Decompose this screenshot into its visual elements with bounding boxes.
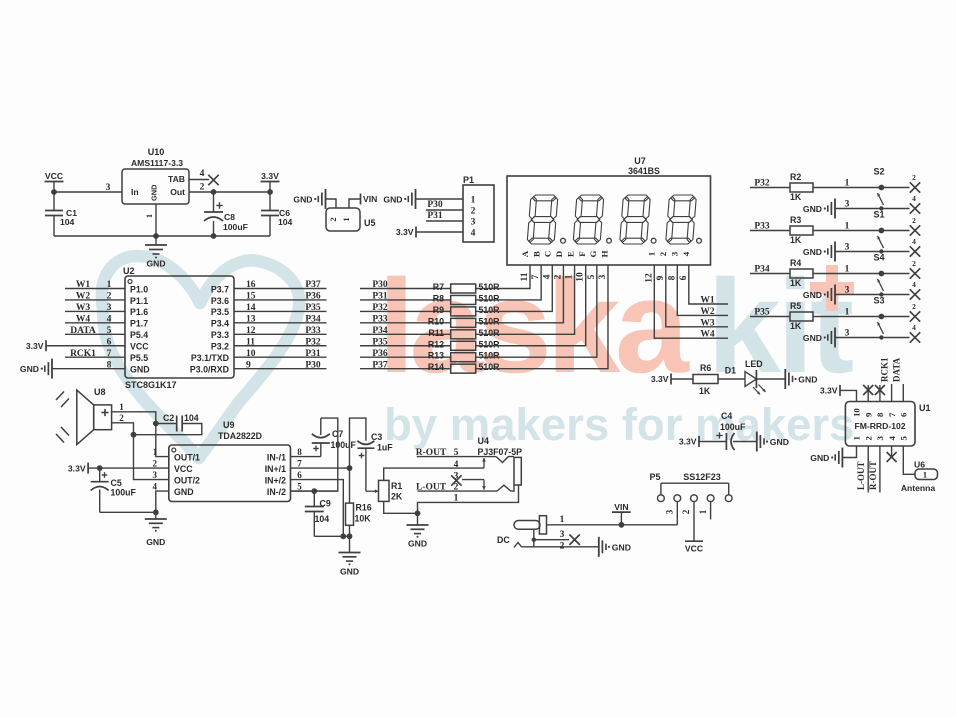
svg-text:2: 2	[328, 217, 338, 221]
svg-text:1: 1	[845, 179, 850, 189]
svg-text:13: 13	[246, 315, 256, 325]
wire U9 pin 8 to C7	[291, 456, 321, 458]
svg-text:GND: GND	[798, 375, 817, 385]
svg-text:W2: W2	[700, 307, 715, 317]
wire U7 pin 1 segment E to R11	[476, 265, 575, 334]
svg-text:3: 3	[845, 243, 850, 253]
svg-text:4: 4	[471, 229, 476, 239]
svg-text:2: 2	[912, 216, 916, 225]
resistor R4 1K	[790, 258, 813, 288]
wire U1 pin 5 to antenna U6	[903, 446, 915, 474]
svg-text:S2: S2	[873, 167, 884, 177]
wire ground rail U10	[54, 235, 270, 237]
wire R16 bottom ground junction	[314, 525, 352, 539]
pin 2 label U10	[200, 183, 205, 193]
wire GND to P1 pin 1	[416, 198, 464, 200]
svg-text:U5: U5	[364, 218, 376, 228]
7-segment digit 3 of U7	[625, 195, 649, 201]
svg-text:16: 16	[246, 280, 256, 290]
svg-text:P3.1/TXD: P3.1/TXD	[191, 353, 229, 363]
svg-text:4: 4	[200, 169, 205, 179]
net label R-OUT wire U1 pin 3	[868, 446, 880, 493]
svg-text:P36: P36	[305, 292, 321, 302]
svg-text:C9: C9	[320, 499, 331, 509]
ground flag at S4	[803, 285, 835, 305]
svg-text:OUT/2: OUT/2	[174, 475, 200, 485]
svg-text:W3: W3	[76, 303, 91, 313]
svg-text:U8: U8	[94, 387, 106, 397]
net label P33 wire to R10	[360, 315, 451, 325]
wire C5 to ground junction	[100, 509, 159, 515]
ground flag at S3	[803, 328, 835, 348]
switch S3	[873, 296, 920, 343]
svg-text:1: 1	[144, 214, 154, 218]
wire R5 to switch S3 pin 1	[813, 308, 910, 320]
svg-text:6: 6	[107, 337, 112, 347]
power flag VIN at DC	[612, 502, 631, 525]
wire R6 to D1	[718, 366, 745, 380]
wire U7 pin 11 segment A to R7	[476, 265, 530, 289]
wire C4 to GND	[733, 441, 757, 443]
watermark tagline by makers for makers	[384, 399, 854, 450]
wire U7 pin 3 segment H to R14	[476, 265, 608, 369]
ground flag at D1	[785, 369, 817, 389]
svg-text:R12: R12	[428, 339, 444, 349]
resistor R10 510R	[428, 316, 500, 327]
wire C3 to R1 wiper	[366, 448, 379, 493]
svg-text:1: 1	[845, 222, 850, 232]
wire C3 branch rail	[350, 418, 366, 468]
svg-text:510R: 510R	[479, 282, 501, 292]
wire R3 to switch S1 pin 1	[813, 222, 910, 234]
svg-text:100uF: 100uF	[331, 440, 357, 450]
svg-text:2: 2	[200, 183, 205, 193]
svg-text:3.3V: 3.3V	[820, 386, 838, 396]
wire GND to S4 pin 3	[835, 286, 910, 296]
svg-text:3.3V: 3.3V	[26, 341, 44, 351]
svg-text:3: 3	[107, 303, 112, 313]
speaker U8	[56, 387, 112, 445]
capacitor C7 100uF	[312, 418, 357, 457]
svg-text:3.3V: 3.3V	[651, 374, 669, 384]
resistor R14 510R	[428, 362, 500, 373]
svg-text:3: 3	[106, 183, 111, 193]
svg-text:1: 1	[845, 308, 850, 318]
net label W4 wire to U2 pin 4	[65, 315, 125, 325]
switch S4	[873, 253, 920, 300]
ground flag at U2 GND pin 8	[20, 359, 125, 379]
svg-text:3: 3	[153, 470, 158, 480]
ground flag at U1	[810, 448, 842, 468]
svg-text:C5: C5	[111, 478, 122, 488]
resistor R11 510R	[428, 328, 500, 339]
svg-text:104: 104	[184, 413, 199, 423]
wire U7 pin 5 segment G to R13	[476, 265, 597, 357]
wire C7 over to U9 pin 5	[291, 418, 338, 491]
net label P33 wire to R3	[750, 222, 790, 232]
headphone jack U4 PJ3F07-5P	[478, 436, 523, 485]
FM module U1 FM-RRD-102	[845, 402, 930, 447]
wire U4 pin 4 switch contact	[454, 458, 486, 470]
svg-text:2: 2	[912, 302, 916, 311]
wire D1 to GND	[756, 378, 785, 380]
svg-text:P31: P31	[305, 349, 321, 359]
wire U7 pin 6 to net W1	[679, 265, 728, 304]
svg-text:P3.7: P3.7	[211, 284, 229, 294]
svg-text:H: H	[599, 250, 609, 257]
svg-text:PJ3F07-5P: PJ3F07-5P	[478, 447, 523, 457]
no-connect X on U1 pin 4	[887, 446, 897, 462]
net label P32 wire to R2	[750, 179, 790, 189]
net label RCK1 wire to U2 pin 7	[65, 349, 125, 359]
svg-text:1: 1	[341, 217, 351, 221]
watermark word laska	[378, 253, 690, 401]
net label P34 wire to R4	[750, 265, 790, 275]
decimal point 2 of U7	[607, 238, 612, 243]
wire P5 to VCC	[693, 502, 695, 542]
svg-text:3: 3	[669, 251, 679, 256]
svg-text:W1: W1	[700, 296, 715, 306]
svg-text:3: 3	[598, 274, 608, 279]
svg-text:4: 4	[912, 323, 916, 332]
svg-text:8: 8	[875, 412, 885, 417]
wire U8 pin 2 to U9 OUT/2	[112, 413, 169, 480]
svg-text:8: 8	[107, 360, 112, 370]
svg-text:U10: U10	[148, 147, 165, 157]
svg-text:1: 1	[471, 196, 476, 206]
svg-text:P30: P30	[305, 360, 321, 370]
resistor R8 510R	[433, 293, 500, 304]
svg-text:GND: GND	[810, 453, 829, 463]
svg-text:TAB: TAB	[168, 174, 185, 184]
svg-text:R5: R5	[790, 301, 801, 311]
wire VCC to U10 pin 3	[51, 189, 122, 195]
wire U10 GND pin 1	[144, 204, 159, 239]
svg-text:S4: S4	[873, 253, 884, 263]
resistor R6 1K	[693, 363, 718, 396]
svg-text:4: 4	[681, 251, 691, 256]
net label W1 wire to U2 pin 1	[65, 280, 125, 290]
svg-text:P3.2: P3.2	[211, 342, 229, 352]
wire U5 pin 2 to GND	[326, 199, 337, 208]
net label P30 at P1	[426, 200, 463, 210]
svg-text:104: 104	[60, 217, 75, 227]
ground flag at DC	[599, 537, 631, 557]
svg-text:W4: W4	[700, 330, 715, 340]
svg-text:R1: R1	[391, 481, 402, 491]
svg-text:IN-/2: IN-/2	[267, 487, 286, 497]
svg-text:C: C	[543, 251, 553, 257]
no-connect X on U1 pin 9	[863, 385, 873, 402]
svg-text:8: 8	[667, 275, 677, 280]
svg-text:4: 4	[454, 460, 459, 470]
svg-text:10K: 10K	[355, 514, 372, 524]
svg-text:P35: P35	[305, 303, 321, 313]
switch S1	[873, 210, 920, 257]
svg-text:IN+/2: IN+/2	[265, 475, 286, 485]
resistor R16 10K	[346, 503, 372, 526]
LED D1	[745, 359, 766, 395]
svg-text:GND: GND	[612, 542, 631, 552]
svg-text:6: 6	[297, 470, 302, 480]
net label W2 at display	[700, 307, 715, 317]
svg-text:P5.4: P5.4	[130, 330, 148, 340]
svg-text:R13: R13	[428, 351, 444, 361]
svg-text:AMS1117-3.3: AMS1117-3.3	[131, 158, 183, 168]
svg-text:9: 9	[246, 360, 251, 370]
svg-text:510R: 510R	[479, 339, 501, 349]
svg-text:P33: P33	[372, 315, 388, 325]
svg-text:1: 1	[845, 265, 850, 275]
watermark heart logo	[102, 256, 300, 458]
svg-text:11: 11	[520, 272, 530, 281]
svg-text:4: 4	[107, 315, 112, 325]
svg-text:1: 1	[852, 436, 862, 440]
wire U7 pin 9 to net W3	[656, 265, 728, 327]
svg-text:P3.4: P3.4	[211, 319, 229, 329]
svg-text:E: E	[565, 251, 575, 257]
net label DATA wire to U2 pin 5	[65, 326, 125, 336]
svg-text:SS12F23: SS12F23	[683, 472, 721, 482]
svg-text:DATA: DATA	[70, 326, 96, 336]
power flag 3.3V at U2 VCC	[26, 337, 125, 351]
power flag VCC at P5	[685, 541, 703, 553]
svg-text:P1.6: P1.6	[130, 307, 148, 317]
svg-text:1: 1	[565, 274, 575, 279]
net label W3 at display	[700, 318, 715, 328]
svg-text:R4: R4	[790, 258, 801, 268]
svg-text:1K: 1K	[790, 235, 802, 245]
svg-text:2: 2	[912, 173, 916, 182]
svg-text:P5.5: P5.5	[130, 353, 148, 363]
wire R1 bottom to ground rail	[384, 501, 418, 513]
net label P35 wire to R5	[750, 308, 790, 318]
decimal point 3 of U7	[651, 238, 656, 243]
svg-text:FM-RRD-102: FM-RRD-102	[854, 421, 905, 431]
svg-text:P35: P35	[372, 337, 388, 347]
svg-text:4: 4	[912, 237, 916, 246]
svg-text:1K: 1K	[790, 321, 802, 331]
svg-text:DC: DC	[497, 535, 510, 545]
svg-text:C8: C8	[224, 212, 235, 222]
7-segment digit 4 of U7	[671, 195, 695, 201]
svg-text:VIN: VIN	[363, 194, 377, 204]
capacitor C1 104	[45, 192, 77, 236]
wire U2 pin 11 net P32	[234, 337, 327, 347]
svg-text:GND: GND	[408, 539, 427, 549]
svg-text:3: 3	[471, 218, 476, 228]
svg-text:4: 4	[912, 280, 916, 289]
svg-text:510R: 510R	[479, 351, 501, 361]
ground flag at S2	[803, 199, 835, 219]
svg-text:2: 2	[153, 459, 158, 469]
wire GND to S3 pin 3	[835, 329, 910, 339]
decimal point 1 of U7	[561, 238, 566, 243]
svg-text:P33: P33	[754, 222, 770, 232]
svg-text:P32: P32	[305, 337, 321, 347]
svg-text:P36: P36	[372, 349, 388, 359]
stub P5 unused throw	[710, 502, 712, 520]
capacitor C3 1uF	[357, 432, 393, 458]
wire DC pin 1 to VIN and P5	[547, 515, 678, 528]
wire U9 GND pin 4	[156, 491, 169, 512]
svg-text:104: 104	[278, 217, 293, 227]
svg-text:GND: GND	[150, 184, 159, 201]
svg-text:GND: GND	[803, 290, 822, 300]
svg-text:U9: U9	[223, 420, 235, 430]
no-connect X U4 pin 3	[451, 472, 486, 490]
svg-text:R11: R11	[428, 328, 444, 338]
wire U10 out to 3.3V	[189, 189, 273, 195]
svg-text:9: 9	[656, 275, 666, 280]
svg-text:12: 12	[644, 273, 654, 283]
svg-text:4: 4	[887, 436, 897, 441]
svg-text:R9: R9	[433, 305, 444, 315]
svg-text:R-OUT: R-OUT	[868, 461, 878, 490]
svg-text:IN-/1: IN-/1	[267, 452, 286, 462]
power flag 3.3V at R6	[651, 374, 671, 385]
svg-text:12: 12	[246, 326, 256, 336]
ground symbol U10	[145, 236, 167, 269]
svg-text:9: 9	[863, 412, 873, 417]
svg-text:14: 14	[246, 303, 256, 313]
svg-text:R16: R16	[356, 503, 372, 513]
svg-text:3: 3	[665, 509, 675, 514]
svg-text:510R: 510R	[479, 362, 501, 372]
svg-text:3641BS: 3641BS	[628, 166, 660, 176]
7-segment digit 2 of U7	[578, 195, 602, 201]
svg-text:1: 1	[153, 447, 158, 457]
wire U1 pin 1 to GND	[842, 446, 856, 458]
svg-text:1: 1	[107, 280, 112, 290]
net label P32 wire to R9	[360, 303, 451, 313]
ground symbol U9	[145, 512, 167, 547]
svg-text:P33: P33	[305, 326, 321, 336]
resistor R7 510R	[433, 282, 500, 293]
svg-text:DATA: DATA	[891, 357, 901, 382]
svg-text:11: 11	[246, 337, 255, 347]
svg-text:VIN: VIN	[614, 502, 628, 512]
wire U8 pin 1 to U9 OUT/1	[112, 402, 169, 457]
svg-text:U7: U7	[634, 156, 646, 166]
DC jack J DC	[497, 516, 547, 548]
svg-text:P30: P30	[372, 280, 388, 290]
display U7 3641BS	[507, 156, 711, 265]
svg-text:P37: P37	[372, 360, 388, 370]
ground flag at C4	[757, 432, 789, 452]
no-connect X on U1 pin 8	[875, 385, 885, 402]
svg-text:1uF: 1uF	[377, 443, 393, 453]
svg-text:VCC: VCC	[685, 544, 703, 554]
svg-text:F: F	[577, 251, 587, 256]
svg-text:R3: R3	[790, 215, 801, 225]
wire R1 top to U4 pin 4	[384, 468, 484, 480]
svg-text:Antenna: Antenna	[901, 483, 936, 493]
svg-text:1K: 1K	[699, 386, 711, 396]
svg-text:B: B	[531, 251, 541, 257]
net label W2 wire to U2 pin 2	[65, 292, 125, 302]
svg-text:4: 4	[153, 482, 158, 492]
wire DC pin 2 to GND	[522, 529, 599, 551]
svg-text:5: 5	[899, 436, 909, 441]
wire 3.3V to U9 VCC	[88, 465, 169, 471]
svg-text:P34: P34	[754, 265, 770, 275]
svg-text:2: 2	[863, 436, 873, 441]
wire U2 pin 15 net P36	[234, 292, 327, 302]
svg-text:1: 1	[646, 252, 656, 256]
svg-text:IN+/1: IN+/1	[265, 464, 286, 474]
watermark word kit	[707, 253, 853, 401]
net label P30 wire to R7	[360, 280, 451, 290]
net label W3 wire to U2 pin 3	[65, 303, 125, 313]
svg-text:U1: U1	[919, 403, 931, 413]
power flag 3.3V at U1	[820, 385, 840, 396]
svg-text:7: 7	[107, 349, 112, 359]
svg-text:C3: C3	[371, 432, 382, 442]
svg-text:1K: 1K	[790, 192, 802, 202]
svg-text:R8: R8	[433, 293, 444, 303]
antenna connector U6	[901, 460, 938, 494]
connector P1	[463, 175, 494, 242]
wire U4 pin 1 to ground	[415, 485, 519, 516]
svg-text:P30: P30	[427, 200, 443, 210]
capacitor C9 104	[291, 488, 338, 536]
wire U2 pin 9 net P30	[234, 360, 327, 370]
wire U9 pin 6 to ground rail	[291, 480, 347, 540]
svg-text:1: 1	[698, 509, 708, 514]
slide switch P5 SS12F23	[649, 472, 732, 514]
wire U2 pin 14 net P35	[234, 303, 327, 313]
svg-text:5: 5	[297, 482, 302, 492]
svg-text:GND: GND	[340, 567, 359, 577]
ground symbol R16	[339, 536, 361, 576]
svg-text:3: 3	[845, 329, 850, 339]
svg-text:R6: R6	[700, 363, 711, 373]
svg-text:D1: D1	[725, 366, 736, 376]
svg-text:2: 2	[912, 259, 916, 268]
svg-text:1: 1	[560, 515, 565, 525]
microcontroller U2 STC8G1K17	[123, 266, 234, 390]
wire R4 to switch S4 pin 1	[813, 265, 910, 277]
svg-text:Out: Out	[170, 187, 185, 197]
wire 3.3V to P1 pin 4	[416, 231, 463, 233]
svg-text:R7: R7	[433, 282, 444, 292]
wire U7 pin 12 to net W4	[644, 265, 728, 338]
svg-text:U4: U4	[478, 436, 490, 446]
svg-text:P3.5: P3.5	[211, 307, 229, 317]
regulator U10 AMS1117-3.3	[122, 147, 189, 204]
wire U7 pin 4 segment C to R9	[476, 265, 552, 311]
svg-text:7: 7	[297, 459, 302, 469]
svg-text:100uF: 100uF	[111, 488, 137, 498]
svg-text:STC8G1K17: STC8G1K17	[125, 380, 177, 390]
power flag 3.3V at C4	[679, 436, 699, 447]
svg-text:P32: P32	[754, 179, 770, 189]
svg-text:P3.6: P3.6	[211, 296, 229, 306]
capacitor C8 100uF	[204, 192, 248, 239]
svg-text:D: D	[554, 251, 564, 257]
svg-text:3: 3	[845, 286, 850, 296]
svg-text:LED: LED	[745, 359, 763, 369]
svg-text:R14: R14	[428, 362, 444, 372]
power flag VCC	[45, 171, 64, 192]
svg-text:U2: U2	[123, 266, 135, 276]
wire 3.3V to C4	[699, 432, 726, 441]
svg-text:2: 2	[471, 207, 476, 217]
svg-text:VCC: VCC	[174, 464, 193, 474]
svg-text:GND: GND	[146, 259, 165, 269]
net label L-OUT wire U1 pin 2	[856, 446, 868, 493]
